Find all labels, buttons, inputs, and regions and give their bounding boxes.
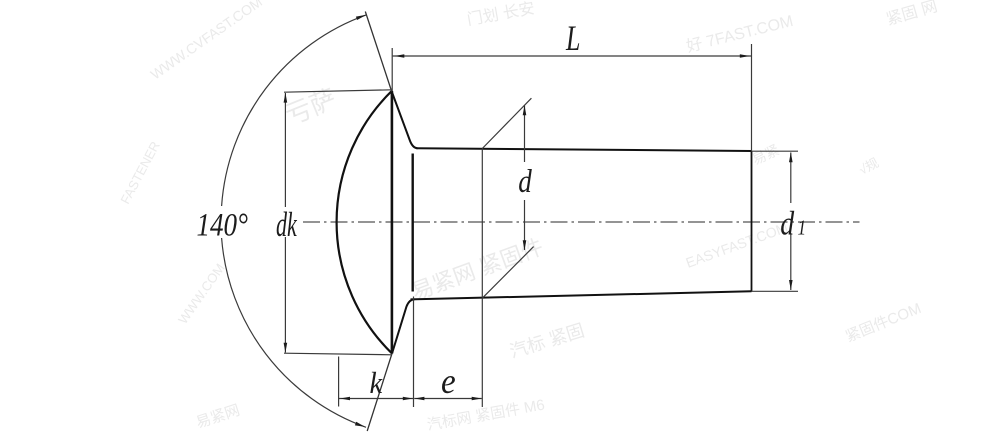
dimension dk extension top <box>284 90 392 92</box>
svg-text:易紧网 紧固件: 易紧网 紧固件 <box>408 234 546 305</box>
svg-text:1: 1 <box>798 217 807 240</box>
svg-text:EASYFAST.COM: EASYFAST.COM <box>684 219 790 271</box>
dimension d slanted extension top <box>482 98 531 148</box>
dimension d slanted extension bottom <box>483 247 534 298</box>
head cone surface upper (apex to shank top, with fillet) <box>392 92 418 149</box>
dimension d line lower part <box>524 200 526 250</box>
dk arrowhead bottom <box>284 343 288 353</box>
d1 arrowhead bottom <box>789 280 793 290</box>
svg-text:紧固 网: 紧固 网 <box>884 0 939 29</box>
svg-text:好 7FAST.COM: 好 7FAST.COM <box>685 12 795 56</box>
svg-text:FASTENER: FASTENER <box>117 139 162 207</box>
svg-text:门划 长安: 门划 长安 <box>466 0 537 29</box>
head crown arc (spherical surface) <box>337 91 392 354</box>
head-shank junction line <box>412 154 414 292</box>
svg-text:e: e <box>441 362 456 402</box>
head face line (flat head top, vertical) <box>391 91 394 354</box>
dimension k extension left <box>338 357 340 407</box>
svg-text:易紧: 易紧 <box>750 141 782 167</box>
svg-text:亏萨: 亏萨 <box>281 83 340 130</box>
svg-text:WWW.COM: WWW.COM <box>175 261 227 327</box>
L arrowhead right <box>740 54 750 58</box>
k arrowhead right <box>403 397 413 401</box>
dimension d line upper part <box>524 106 526 163</box>
svg-text:d: d <box>780 204 794 242</box>
140 degree dimension arc lower part <box>222 238 366 427</box>
cone angle extension line lower (vertex down-left) <box>367 354 392 432</box>
dimension d1 line upper part <box>790 153 792 204</box>
svg-text:dk: dk <box>276 206 298 244</box>
d1 arrowhead top <box>789 152 793 162</box>
svg-text:汽标网 紧固件 M6: 汽标网 紧固件 M6 <box>426 397 546 434</box>
d arrowhead bottom <box>523 240 527 250</box>
dk arrowhead top <box>284 93 288 103</box>
svg-text:√规: √规 <box>856 155 881 178</box>
dimension k/e shared extension <box>413 297 415 408</box>
dimension L line <box>393 55 751 57</box>
dimension k line <box>339 398 413 400</box>
dimension dk line lower part <box>284 237 286 353</box>
d arrowhead top <box>523 105 527 115</box>
head cone surface lower (bottom vertex to shank bottom, with fillet) <box>392 299 415 353</box>
svg-text:k: k <box>370 366 383 400</box>
dimension d1 line lower part <box>790 234 792 290</box>
svg-text:140°: 140° <box>197 206 248 243</box>
dimension L extension left <box>391 48 393 91</box>
L arrowhead left <box>394 54 404 58</box>
dimension d1 extension bottom <box>752 290 799 292</box>
shank bottom edge <box>411 291 752 299</box>
svg-text:d: d <box>518 162 532 199</box>
svg-text:L: L <box>565 18 580 58</box>
centerline (axis) <box>303 221 860 223</box>
dimension dk extension bottom <box>284 353 392 355</box>
shank end edge (right) <box>751 151 753 291</box>
e arrowhead left <box>414 397 424 401</box>
140 degree dimension arc upper part <box>222 15 367 206</box>
shank top edge <box>417 148 752 151</box>
dimension dk line upper part <box>284 93 286 207</box>
e arrowhead right <box>472 397 482 401</box>
svg-text:WWW.CVFAST.COM: WWW.CVFAST.COM <box>148 0 265 82</box>
k arrowhead left <box>340 397 350 401</box>
svg-text:汽标 紧固: 汽标 紧固 <box>507 320 586 362</box>
arc arrowhead bottom <box>355 422 365 427</box>
arc arrowhead top <box>356 15 367 20</box>
dimension d1 extension top <box>752 150 799 152</box>
cone angle extension line upper (apex up-left) <box>365 12 391 92</box>
dimension e extension right <box>481 149 483 408</box>
svg-text:易紧网: 易紧网 <box>194 402 242 432</box>
svg-text:紧固件COM: 紧固件COM <box>843 300 924 346</box>
dimension e line <box>414 398 482 400</box>
dimension L extension right <box>751 44 753 151</box>
